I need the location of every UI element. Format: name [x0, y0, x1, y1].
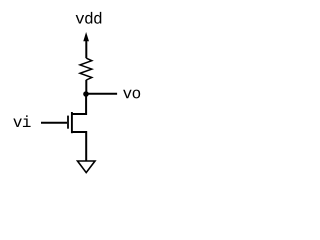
transistor M1 channel bar: [71, 112, 73, 133]
wire gate from vi: [41, 122, 67, 124]
ground symbol: [78, 161, 96, 173]
node drain junction dot: [83, 91, 89, 97]
net label vo: [123, 90, 140, 99]
wire resistor bottom to node: [85, 80, 87, 94]
transistor M1 gate bar: [67, 116, 69, 129]
wire drain: node down and left to channel: [72, 94, 86, 114]
net label vi: [13, 115, 30, 127]
wire node to vo: [86, 93, 117, 95]
net label vdd: [76, 12, 102, 24]
wire source: channel right and down to ground: [72, 132, 86, 161]
resistor R (load): [80, 58, 92, 80]
power symbol vdd (arrow): [83, 32, 89, 58]
